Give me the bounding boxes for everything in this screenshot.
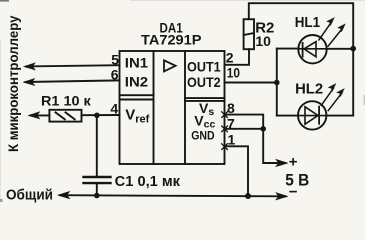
scan edge top (130, 0, 365, 2)
scan dot bottom-left (0, 199, 3, 202)
HL2 emission arrow b (328, 93, 342, 111)
LED HL2 (298, 101, 326, 129)
svg-text:5 В: 5 В (285, 172, 309, 190)
svg-text:IN2: IN2 (125, 73, 149, 89)
svg-text:HL2: HL2 (295, 82, 323, 98)
svg-text:К микроконтроллеру: К микроконтроллеру (5, 15, 21, 152)
wire pin6 input (26, 80, 120, 82)
svg-text:7: 7 (227, 115, 235, 131)
junction node C1/rail (94, 193, 100, 199)
HL1 emission arrow b (328, 28, 343, 47)
wire pin4 Vref left (31, 114, 50, 116)
HL1 emission arrow a (319, 22, 332, 40)
wire HL1 left (277, 48, 299, 50)
wire pin8 Vs (225, 115, 264, 129)
wire pin1 GND (225, 146, 249, 196)
scan edge left (0, 40, 1, 200)
IC divider left column (153, 51, 155, 164)
IC Vs box top (185, 100, 225, 102)
svg-text:TA7291P: TA7291P (141, 32, 202, 48)
svg-text:10: 10 (227, 65, 240, 81)
scan corner mark top-left (0, 0, 9, 2)
wire HL2 left (277, 115, 299, 117)
IC OUT box bottom (185, 97, 225, 99)
svg-text:HL1: HL1 (295, 15, 320, 31)
wire pin2 OUT1 (225, 49, 250, 65)
svg-text:OUT1: OUT1 (187, 59, 221, 74)
wire R1 to IC pin4 (82, 114, 120, 116)
wire pin10 OUT2 (225, 82, 277, 84)
svg-text:IN1: IN1 (125, 55, 149, 71)
wire pin5 input (26, 65, 120, 66)
pin1 x mark (222, 144, 228, 150)
junction node GND/rail (245, 193, 251, 199)
HL2 emission arrow a (321, 88, 333, 105)
capacitor C1 (84, 176, 111, 178)
svg-text:8: 8 (227, 100, 235, 116)
wire HL1 right (327, 48, 354, 50)
junction node R1/C1 (94, 113, 100, 119)
junction node HL1 right (350, 46, 356, 52)
IC Vref box top (120, 99, 154, 101)
svg-text:R1 10 к: R1 10 к (41, 93, 92, 109)
pin8 x mark (222, 112, 228, 118)
svg-text:+: + (289, 154, 298, 171)
wire C1 to bottom rail (96, 184, 98, 195)
IC IN box bottom (120, 94, 154, 96)
svg-text:OUT2: OUT2 (187, 75, 221, 90)
pin7 x mark (222, 126, 228, 132)
wire HL2 right (326, 115, 353, 117)
amplifier triangle (164, 60, 176, 71)
svg-text:2: 2 (226, 50, 234, 66)
IC divider right column (184, 51, 186, 164)
wire R2 top rail to HL column (249, 3, 353, 115)
svg-text:5: 5 (111, 52, 119, 68)
svg-text:4: 4 (110, 100, 118, 116)
junction node OUT2/HL column (274, 80, 280, 86)
wire HL left column (276, 49, 278, 116)
wire junction to C1 (96, 115, 98, 176)
resistor R1 (49, 110, 81, 122)
wire +5V feed (263, 129, 285, 163)
svg-text:GND: GND (191, 129, 215, 143)
resistor R2 (244, 19, 254, 49)
IC DA1 outline (120, 51, 225, 164)
scan edge right (364, 95, 365, 105)
svg-text:10: 10 (255, 33, 271, 49)
svg-text:6: 6 (111, 66, 119, 82)
svg-text:1: 1 (228, 131, 236, 147)
junction node Vs/Vcc (260, 126, 266, 132)
svg-text:Общий: Общий (6, 187, 53, 203)
wire bottom common rail (60, 195, 285, 196)
svg-text:C1 0,1 мк: C1 0,1 мк (115, 174, 181, 190)
LED HL1 (298, 35, 326, 63)
wire pin7 Vcc (225, 128, 264, 130)
